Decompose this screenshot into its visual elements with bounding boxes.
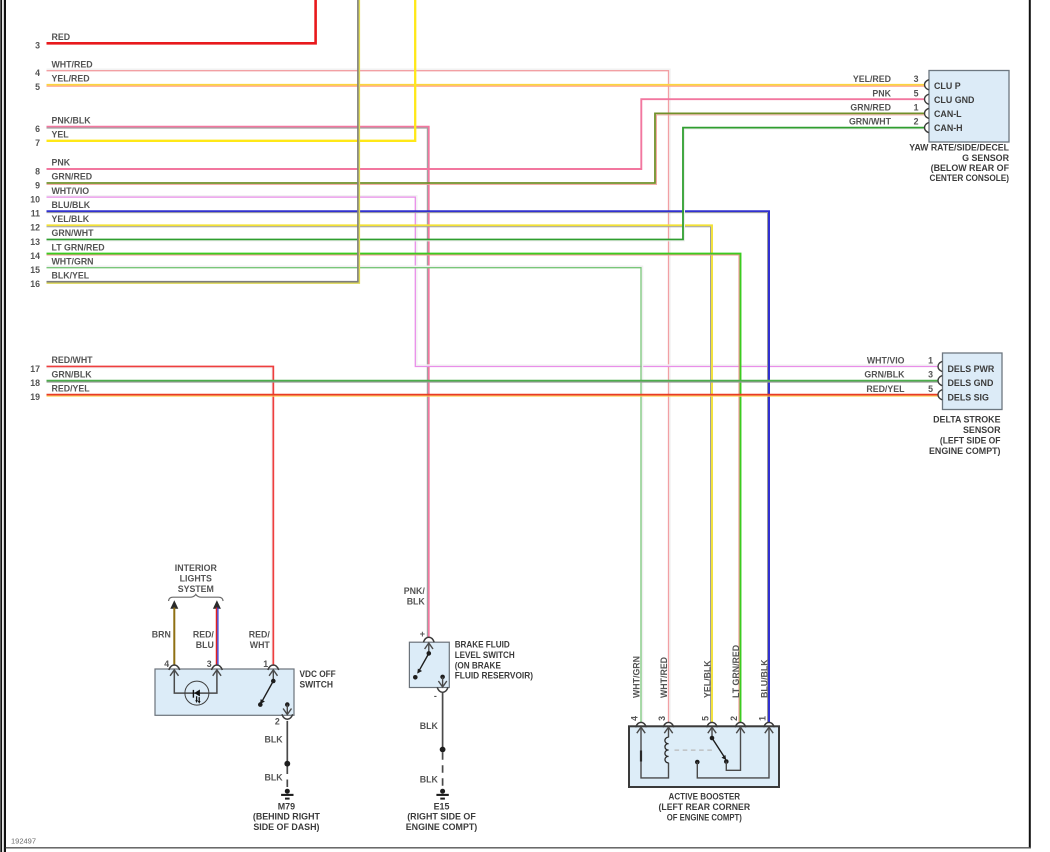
- wire 4 WHT/RED: [47, 69, 671, 722]
- label BRN: [152, 630, 171, 640]
- svg-text:GRN/WHT: GRN/WHT: [52, 228, 95, 238]
- wire BLK (brake switch to splice): [442, 693, 444, 750]
- svg-text:-: -: [434, 691, 437, 701]
- label BLK (upper, E15): [420, 721, 439, 731]
- wire BLK dashed to M79: [286, 767, 288, 788]
- svg-text:SYSTEM: SYSTEM: [178, 584, 214, 594]
- wire 14 LT GRN/RED: [47, 254, 741, 723]
- label RED/WHT: [249, 630, 271, 651]
- arrow to interior lights (RED/BLU): [213, 600, 221, 609]
- svg-text:LT GRN/RED: LT GRN/RED: [52, 242, 105, 252]
- svg-text:ENGINE COMPT): ENGINE COMPT): [406, 822, 478, 832]
- DELS pin 1 (WHT/VIO): [867, 356, 942, 372]
- label wire 18 GRN/BLK: [30, 369, 92, 388]
- DELS pin 5 (RED/YEL): [866, 384, 942, 400]
- svg-text:+: +: [420, 629, 425, 639]
- VDC switch blade: [258, 670, 276, 707]
- svg-text:YEL/BLK: YEL/BLK: [702, 660, 712, 698]
- wire 6 PNK/BLK: [47, 127, 429, 637]
- svg-text:GRN/WHT: GRN/WHT: [849, 117, 892, 127]
- svg-text:192497: 192497: [11, 837, 36, 846]
- booster coil L1: [665, 727, 669, 763]
- wire BLK (VDC pin 2 to splice): [286, 721, 288, 764]
- svg-text:CENTER CONSOLE): CENTER CONSOLE): [930, 173, 1010, 183]
- wire 16 BLK/YEL: [47, 0, 360, 283]
- label wire 4 WHT/RED: [35, 59, 92, 78]
- wire 13 GRN/WHT: [47, 128, 925, 241]
- label + terminal: [420, 629, 425, 639]
- svg-text:DELTA STROKE: DELTA STROKE: [933, 414, 1000, 424]
- booster contact to pin 1: [695, 727, 769, 778]
- svg-text:PNK: PNK: [872, 88, 891, 98]
- svg-text:PNK/BLK: PNK/BLK: [52, 115, 92, 125]
- svg-text:YEL/BLK: YEL/BLK: [52, 214, 90, 224]
- VDC lamp branch wiring: [174, 670, 217, 693]
- booster switch blade (pin 5): [710, 727, 729, 764]
- wire 17 RED/WHT: [47, 367, 274, 666]
- svg-text:5: 5: [35, 82, 40, 92]
- wire 19 RED/YEL: [47, 395, 939, 396]
- svg-text:3: 3: [928, 370, 933, 380]
- YAW pin 2 (GRN/WHT): [849, 117, 929, 133]
- svg-text:BLK: BLK: [265, 735, 284, 745]
- caption ground M79: [253, 801, 321, 832]
- svg-text:GRN/BLK: GRN/BLK: [52, 369, 93, 379]
- label BLK (lower, E15): [420, 775, 439, 785]
- caption ACTIVE BOOSTER: [659, 791, 751, 822]
- svg-text:RED/YEL: RED/YEL: [52, 383, 91, 393]
- svg-text:4: 4: [630, 716, 640, 721]
- svg-text:2: 2: [729, 716, 739, 721]
- wire 12 YEL/BLK: [47, 225, 713, 722]
- svg-text:ENGINE COMPT): ENGINE COMPT): [929, 446, 1001, 456]
- svg-text:14: 14: [30, 251, 40, 261]
- wire RED/BLU (VDC pin 3 to interior lights): [217, 608, 218, 666]
- svg-text:WHT/GRN: WHT/GRN: [52, 256, 94, 266]
- svg-text:YEL/RED: YEL/RED: [52, 74, 90, 84]
- label wire 12 YEL/BLK: [30, 214, 90, 233]
- brake switch pin -: [437, 687, 448, 692]
- caption BRAKE FLUID LEVEL SWITCH: [455, 640, 533, 681]
- svg-text:GRN/BLK: GRN/BLK: [864, 370, 905, 380]
- YAW pin 1 (GRN/RED): [850, 103, 928, 119]
- VDC pin 1: [263, 659, 279, 676]
- svg-text:BLK: BLK: [407, 597, 426, 607]
- VDC switch output contact to pin 2: [285, 702, 290, 714]
- svg-text:(BEHIND RIGHT: (BEHIND RIGHT: [253, 812, 321, 822]
- svg-text:BLK: BLK: [420, 721, 439, 731]
- svg-text:WHT/VIO: WHT/VIO: [52, 186, 90, 196]
- svg-text:PNK: PNK: [52, 158, 71, 168]
- svg-text:6: 6: [35, 124, 40, 134]
- label wire 16 BLK/YEL: [30, 271, 90, 290]
- wire BLK dashed to E15: [442, 752, 444, 787]
- connector YAW RATE/SIDE/DECEL G SENSOR box: [929, 71, 1009, 143]
- svg-text:5: 5: [914, 88, 919, 98]
- label BLK (upper, M79): [265, 735, 284, 745]
- wire 7 YEL: [47, 0, 416, 141]
- svg-text:CLU GND: CLU GND: [934, 95, 975, 105]
- splice dot E15 branch: [440, 747, 446, 753]
- svg-text:5: 5: [928, 384, 933, 394]
- svg-text:2: 2: [914, 117, 919, 127]
- svg-text:WHT/VIO: WHT/VIO: [867, 356, 905, 366]
- arrow to interior lights (BRN): [170, 600, 178, 609]
- booster coil branch (pins 4-3): [641, 727, 669, 778]
- svg-text:CAN-H: CAN-H: [934, 123, 963, 133]
- VDC pin 4: [164, 659, 180, 676]
- switch VDC OFF SWITCH box: [155, 669, 294, 715]
- label - terminal: [434, 691, 437, 701]
- svg-text:19: 19: [30, 392, 40, 402]
- svg-text:CLU P: CLU P: [934, 81, 961, 91]
- VDC pin 2: [275, 709, 293, 727]
- label wire 3 RED: [35, 32, 70, 51]
- svg-text:ACTIVE BOOSTER: ACTIVE BOOSTER: [669, 791, 741, 801]
- svg-text:RED/: RED/: [249, 630, 271, 640]
- wire 18 GRN/BLK: [47, 381, 939, 383]
- ground M79: [281, 789, 293, 799]
- booster pin 3 (WHT/RED): [657, 657, 674, 733]
- svg-text:YEL: YEL: [52, 130, 70, 140]
- svg-text:BLK/YEL: BLK/YEL: [52, 271, 90, 281]
- svg-text:LT GRN/RED: LT GRN/RED: [731, 645, 741, 698]
- svg-text:BLU/BLK: BLU/BLK: [52, 200, 91, 210]
- booster pin 1 (BLU/BLK): [758, 659, 775, 733]
- svg-text:YEL/RED: YEL/RED: [853, 74, 891, 84]
- ground E15: [436, 789, 448, 799]
- svg-text:VDC OFF: VDC OFF: [300, 669, 337, 679]
- svg-text:LIGHTS: LIGHTS: [180, 574, 212, 584]
- svg-text:E15: E15: [434, 801, 450, 811]
- label wire 6 PNK/BLK: [35, 115, 91, 134]
- caption ground E15: [406, 801, 478, 832]
- svg-text:16: 16: [30, 279, 40, 289]
- svg-text:WHT/RED: WHT/RED: [659, 657, 669, 698]
- label INTERIOR LIGHTS SYSTEM: [175, 563, 218, 594]
- YAW pin 5 (PNK): [872, 88, 928, 104]
- label wire 11 BLU/BLK: [31, 200, 91, 219]
- caption VDC OFF SWITCH: [300, 669, 337, 690]
- svg-text:BLU: BLU: [196, 640, 214, 650]
- svg-text:M79: M79: [278, 801, 295, 811]
- svg-text:RED/: RED/: [193, 630, 215, 640]
- svg-text:SIDE OF DASH): SIDE OF DASH): [253, 822, 319, 832]
- wire BRN (VDC pin 4 to interior lights): [173, 608, 175, 666]
- label wire 7 YEL: [35, 130, 69, 149]
- booster pin 2 (LT GRN/RED): [729, 645, 746, 733]
- caption DELTA STROKE sensor location: [929, 414, 1001, 456]
- svg-text:SWITCH: SWITCH: [300, 680, 334, 690]
- svg-text:(ON BRAKE: (ON BRAKE: [455, 660, 501, 670]
- svg-text:4: 4: [35, 68, 40, 78]
- svg-text:DELS PWR: DELS PWR: [948, 364, 995, 374]
- svg-text:11: 11: [31, 209, 40, 219]
- svg-text:(LEFT SIDE OF: (LEFT SIDE OF: [940, 435, 1001, 445]
- booster pin 5 (YEL/BLK): [701, 660, 718, 733]
- svg-text:1: 1: [914, 103, 919, 113]
- splice dot M79 branch: [284, 761, 290, 767]
- wire 15 WHT/GRN: [47, 266, 643, 722]
- page number 192497: [11, 837, 36, 846]
- svg-text:12: 12: [30, 223, 40, 233]
- wire 8 PNK: [47, 99, 925, 169]
- svg-text:WHT/GRN: WHT/GRN: [631, 656, 641, 698]
- svg-text:RED/WHT: RED/WHT: [52, 355, 94, 365]
- svg-text:3: 3: [207, 659, 212, 669]
- label wire 19 RED/YEL: [30, 383, 90, 402]
- svg-text:BRN: BRN: [152, 630, 171, 640]
- svg-text:(LEFT REAR CORNER: (LEFT REAR CORNER: [659, 802, 751, 812]
- brake switch pin +: [423, 637, 434, 649]
- booster mechanical link (dashed): [675, 749, 713, 751]
- VDC indicator lamp (LED): [185, 681, 209, 705]
- svg-text:DELS SIG: DELS SIG: [948, 392, 990, 402]
- connector DELTA STROKE SENSOR box: [943, 353, 1003, 410]
- wire 10 WHT/VIO: [47, 196, 939, 367]
- svg-text:DELS GND: DELS GND: [948, 378, 994, 388]
- label wire 10 WHT/VIO: [30, 186, 89, 205]
- svg-text:RED: RED: [52, 32, 71, 42]
- label BLK (lower, M79): [265, 772, 284, 782]
- svg-text:WHT/RED: WHT/RED: [52, 59, 93, 69]
- svg-text:3: 3: [35, 41, 40, 51]
- svg-text:3: 3: [914, 74, 919, 84]
- svg-text:INTERIOR: INTERIOR: [175, 563, 218, 573]
- svg-text:9: 9: [35, 180, 40, 190]
- svg-text:10: 10: [30, 195, 40, 205]
- brake switch blade: [413, 643, 431, 680]
- brace interior lights: [169, 594, 224, 601]
- label wire 15 WHT/GRN: [30, 256, 93, 275]
- svg-text:BRAKE FLUID: BRAKE FLUID: [455, 640, 511, 650]
- svg-text:WHT: WHT: [250, 640, 271, 650]
- svg-text:5: 5: [701, 716, 711, 721]
- label wire 13 GRN/WHT: [30, 228, 94, 247]
- booster pin 4 (WHT/GRN): [630, 656, 647, 733]
- label wire 14 LT GRN/RED: [30, 242, 104, 261]
- svg-text:15: 15: [30, 265, 40, 275]
- switch BRAKE FLUID LEVEL SWITCH box: [409, 642, 449, 687]
- svg-text:2: 2: [275, 716, 280, 726]
- wire 11 BLU/BLK: [47, 211, 770, 722]
- svg-text:GRN/RED: GRN/RED: [850, 103, 891, 113]
- svg-text:BLU/BLK: BLU/BLK: [759, 659, 769, 698]
- wire 5 YEL/RED: [47, 85, 925, 86]
- svg-text:8: 8: [35, 166, 40, 176]
- caption YAW sensor location: [909, 142, 1009, 183]
- label PNK/BLK: [404, 586, 426, 606]
- svg-text:BLK: BLK: [265, 772, 284, 782]
- svg-text:1: 1: [758, 716, 768, 721]
- svg-text:17: 17: [30, 364, 40, 374]
- svg-text:FLUID RESERVOIR): FLUID RESERVOIR): [455, 671, 533, 681]
- svg-text:1: 1: [263, 659, 268, 669]
- svg-text:13: 13: [30, 237, 40, 247]
- svg-text:(RIGHT SIDE OF: (RIGHT SIDE OF: [407, 812, 476, 822]
- relay ACTIVE BOOSTER box: [629, 726, 779, 787]
- svg-text:LEVEL SWITCH: LEVEL SWITCH: [455, 650, 515, 660]
- svg-text:(BELOW REAR OF: (BELOW REAR OF: [931, 163, 1010, 173]
- label RED/BLU: [193, 630, 215, 651]
- svg-text:SENSOR: SENSOR: [963, 425, 1001, 435]
- svg-text:OF ENGINE COMPT): OF ENGINE COMPT): [667, 812, 742, 822]
- svg-text:YAW RATE/SIDE/DECEL: YAW RATE/SIDE/DECEL: [909, 142, 1009, 152]
- wire 9 GRN/RED: [47, 113, 925, 184]
- booster contact to pin 2: [726, 727, 740, 770]
- svg-text:BLK: BLK: [420, 775, 439, 785]
- svg-text:4: 4: [164, 659, 169, 669]
- svg-text:G SENSOR: G SENSOR: [962, 153, 1009, 163]
- VDC pin 3: [207, 659, 223, 676]
- svg-text:GRN/RED: GRN/RED: [52, 172, 93, 182]
- svg-text:1: 1: [928, 356, 933, 366]
- svg-text:CAN-L: CAN-L: [934, 109, 962, 119]
- label wire 8 PNK: [35, 158, 71, 177]
- brake switch output contact to - pin: [438, 675, 446, 687]
- label wire 9 GRN/RED: [35, 172, 92, 191]
- svg-text:18: 18: [30, 378, 40, 388]
- svg-text:RED/YEL: RED/YEL: [866, 384, 905, 394]
- wire 3 RED: [47, 0, 316, 43]
- label wire 5 YEL/RED: [35, 74, 90, 93]
- svg-text:7: 7: [35, 138, 40, 148]
- label wire 17 RED/WHT: [30, 355, 93, 374]
- DELS pin 3 (GRN/BLK): [864, 370, 942, 386]
- svg-text:3: 3: [657, 716, 667, 721]
- YAW pin 3 (YEL/RED): [853, 74, 929, 90]
- svg-text:PNK/: PNK/: [404, 586, 426, 596]
